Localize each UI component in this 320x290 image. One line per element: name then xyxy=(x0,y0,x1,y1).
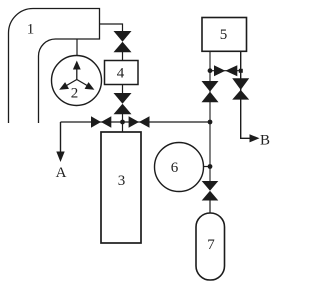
wire V1 to box 4 xyxy=(122,52,124,61)
svg-text:1: 1 xyxy=(27,22,35,38)
valve H3 cross-over xyxy=(208,65,243,76)
svg-text:B: B xyxy=(260,133,270,149)
svg-text:6: 6 xyxy=(171,160,179,176)
arrow B head xyxy=(250,134,260,142)
pump 6 xyxy=(155,143,204,192)
valve V2 xyxy=(114,93,132,114)
svg-text:7: 7 xyxy=(207,237,215,253)
svg-text:5: 5 xyxy=(220,27,228,43)
svg-text:3: 3 xyxy=(118,173,126,189)
valve V5 xyxy=(202,181,219,201)
valve V3 xyxy=(202,81,219,102)
svg-text:A: A xyxy=(56,165,67,181)
wire box 4 to valve V2 xyxy=(122,85,124,95)
box 5 xyxy=(202,18,247,52)
valve V1 xyxy=(114,31,132,52)
branch arrow A xyxy=(56,122,64,162)
cylinder 7 xyxy=(196,213,225,280)
wire left drop from box 5 down to valve V5 xyxy=(209,51,211,182)
wire pump 6 to drop line xyxy=(204,166,211,168)
wire elbow right end to valve V1 xyxy=(100,24,123,32)
junction center xyxy=(120,120,125,125)
box 3 xyxy=(101,132,141,243)
wire V5 to cylinder 7 xyxy=(209,201,211,215)
valve V4 xyxy=(232,78,249,99)
valve H2 xyxy=(129,116,150,127)
svg-text:4: 4 xyxy=(117,66,125,82)
junction pump 6 xyxy=(208,164,213,169)
junction main line / right drop xyxy=(208,120,213,125)
valve H1 xyxy=(91,116,111,127)
duct elbow 1 xyxy=(9,9,100,124)
main horizontal wire xyxy=(61,121,211,123)
wire V2 to junction and box 3 xyxy=(122,114,124,132)
box 4 xyxy=(105,61,139,85)
svg-text:2: 2 xyxy=(71,86,79,102)
fan/blower 2 xyxy=(52,56,102,106)
wire elbow to fan 2 xyxy=(76,39,78,56)
wire right drop from box 5 to arrow B xyxy=(241,51,253,138)
